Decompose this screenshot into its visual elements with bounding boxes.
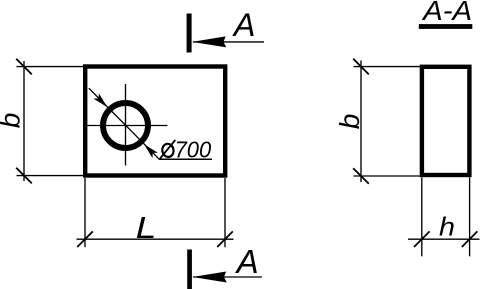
svg-text:A: A [235,243,259,280]
svg-text:b: b [0,113,26,129]
svg-text:L: L [136,210,157,245]
svg-text:A: A [232,7,256,43]
svg-text:b: b [334,114,365,130]
svg-text:A-A: A-A [421,0,472,26]
svg-text:700: 700 [175,137,212,163]
svg-text:h: h [439,212,455,242]
